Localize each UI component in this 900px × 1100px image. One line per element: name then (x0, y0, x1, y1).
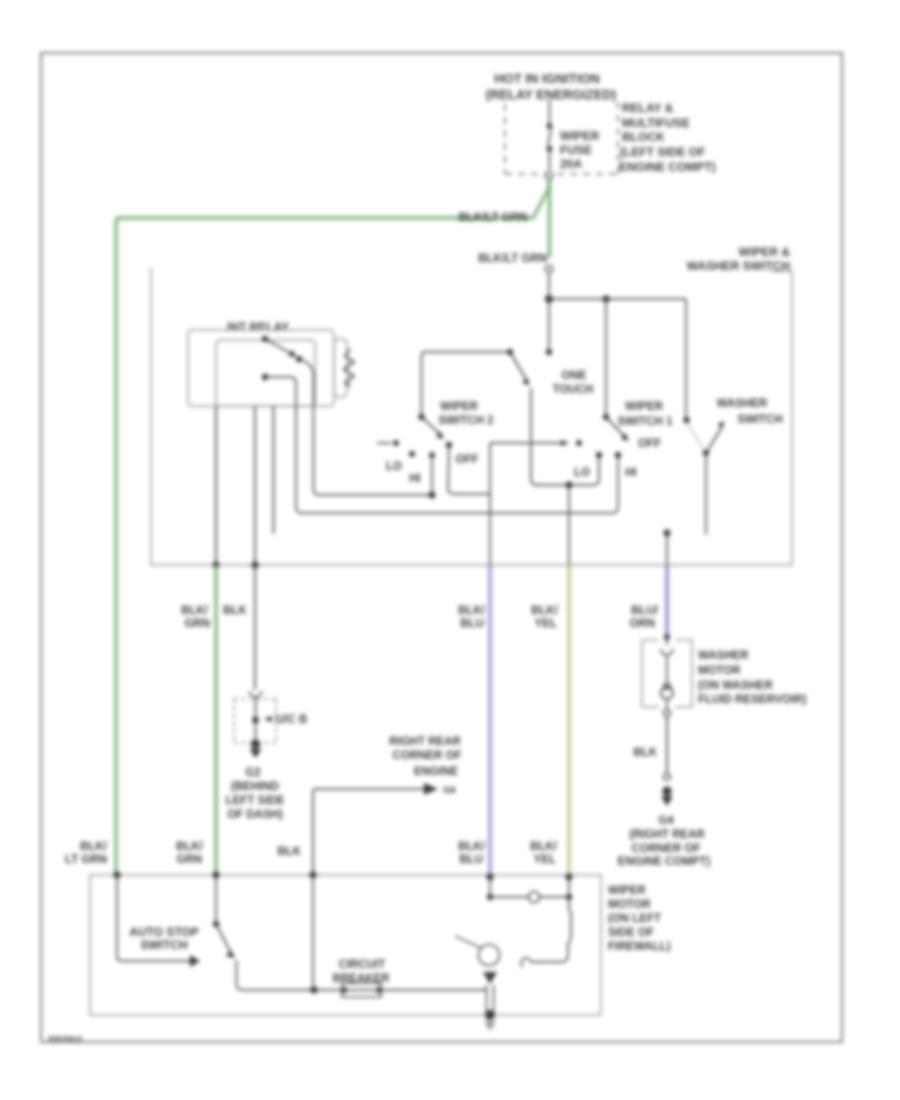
svg-text:BLK: BLK (277, 846, 301, 858)
contact dot (429, 452, 435, 458)
svg-text:ENGINE COMPT): ENGINE COMPT) (618, 856, 711, 868)
wire label BLK/YEL (530, 841, 558, 866)
ground terminal G2 (250, 739, 262, 758)
svg-text:CORNER OF: CORNER OF (393, 750, 462, 762)
svg-text:LO: LO (574, 467, 590, 479)
wire: relay pin to BLK (254, 406, 256, 565)
label: WIPER SWITCH 1 (618, 401, 674, 428)
wire label BLU/ORN (629, 605, 658, 630)
relay K1 coil winding (344, 349, 354, 386)
wire label BLK/GRN (181, 605, 210, 630)
svg-text:WASHER: WASHER (717, 398, 768, 410)
label: WASHER SWITCH (717, 398, 783, 426)
svg-text:BLK: BLK (223, 605, 247, 617)
label: RIGHT REAR CORNER OF ENGINE (389, 736, 461, 778)
auto stop contact arrow (190, 955, 200, 967)
label: WASHER MOTOR (ON WASHER FLUID RESERVOIR) (698, 650, 807, 706)
wiper switch SW2 pivot (418, 414, 424, 420)
wire: terminal to motor (666, 637, 668, 645)
wire: wiper motor ground lead BLK (313, 789, 424, 875)
svg-text:LEFT SIDE: LEFT SIDE (226, 795, 285, 807)
svg-text:HI: HI (625, 467, 637, 479)
junction at contact riser (428, 491, 435, 498)
wire label BLK/GRN (176, 841, 204, 866)
wire: relay pin to BLK/GRN (215, 406, 217, 565)
svg-text:GRN: GRN (184, 618, 210, 630)
motor ground double lead (487, 985, 494, 1012)
wire label BLK/BLU (458, 841, 486, 866)
svg-text:CIRCUIT: CIRCUIT (339, 959, 386, 971)
label: WIPER MOTOR (ON LEFT SIDE OF FIREWALL) (608, 885, 671, 953)
wire: connector to node A (548, 274, 550, 296)
svg-text:SWITCH 1: SWITCH 1 (618, 416, 674, 428)
label: WIPER & WASHER SWITCH (687, 245, 791, 273)
washer switch SW4 feed terminal (683, 417, 689, 423)
label: G4 (RIGHT REAR CORNER OF ENGINE COMPT) (618, 815, 711, 868)
svg-text:BLK/: BLK/ (458, 841, 486, 853)
svg-text:HI: HI (409, 473, 421, 485)
connector ring (664, 710, 671, 717)
wire: BLK/LT GRN branch to left and down to wiper motor (116, 180, 550, 873)
wiper switch 1 LO contact (596, 452, 602, 458)
park contact hook (521, 958, 531, 967)
svg-text:(ON WASHER: (ON WASHER (698, 680, 773, 692)
washer switch SW4 pivot (703, 450, 709, 456)
label: AUTO STOP SWITCH (129, 925, 199, 952)
wiper & washer switch assembly box (151, 268, 792, 565)
washer switch SW4 rest position arm (faint) (687, 423, 704, 450)
svg-text:BLK/: BLK/ (176, 841, 204, 853)
label: G2 (BEHIND LEFT SIDE OF DASH) (226, 767, 285, 821)
svg-text:RIGHT REAR: RIGHT REAR (389, 736, 461, 748)
terminal at box edge (251, 561, 258, 568)
svg-text:BLK: BLK (633, 747, 657, 759)
ground terminal G4 (661, 786, 673, 806)
svg-text:BLK/: BLK/ (80, 841, 108, 853)
INT line contact arrow (561, 440, 569, 446)
svg-text:SIDE OF: SIDE OF (608, 927, 654, 939)
svg-text:BLU: BLU (459, 854, 483, 866)
relay K1 inner case (216, 340, 315, 406)
wire: bus to wiper switch 2 pivot (422, 352, 511, 414)
svg-text:G4: G4 (658, 815, 674, 827)
label: WIPER SWITCH 2 (439, 401, 494, 427)
svg-text:BLK/: BLK/ (181, 605, 209, 617)
terminal pin 3 (309, 871, 316, 878)
svg-text:WIPER &: WIPER & (739, 245, 791, 259)
wire: SW2 OFF contact to INT riser (448, 445, 490, 494)
relay K1 coil tab (334, 339, 347, 397)
wire: socket to motor (666, 655, 668, 684)
svg-text:HOT IN IGNITION: HOT IN IGNITION (494, 71, 599, 86)
wire: battery feed into fuse (549, 100, 551, 125)
wire: node A drop to switch bus (548, 303, 550, 349)
wire: washer motor ground BLK (666, 717, 668, 773)
wire: SW2 INT line to blue riser (490, 442, 563, 444)
connector U/C B dashed outline (234, 699, 276, 743)
washer switch SW4 arm (706, 422, 725, 453)
svg-text:G6: G6 (443, 785, 456, 796)
wire: drop to wiper switch 1 (605, 299, 607, 414)
brush ring (529, 892, 540, 903)
label: HOT IN IGNITION (RELAY ENERGIZED) (486, 71, 617, 102)
svg-text:BLOCK: BLOCK (622, 130, 665, 144)
wire: pin 3 ground lead inside motor (312, 875, 314, 990)
wire: drop to washer switch (685, 299, 687, 417)
svg-text:MOTOR: MOTOR (698, 665, 741, 677)
terminal pin 1 (113, 871, 120, 878)
svg-text:TOUCH: TOUCH (553, 384, 594, 396)
wire: auto stop switch fixed contact (117, 875, 190, 961)
node: washer feed to motor (663, 529, 670, 536)
wire: yellow riser inside switch box (568, 485, 570, 565)
svg-text:BLU/: BLU/ (631, 605, 659, 617)
svg-text:OF DASH): OF DASH) (227, 809, 283, 821)
washer motor socket symbol (661, 649, 673, 655)
washer motor M2 case (642, 640, 692, 707)
wiper switch SW1 arm (606, 417, 629, 441)
svg-text:(ON LEFT: (ON LEFT (608, 913, 661, 925)
relay K1 coil feed pin (262, 374, 268, 380)
wire: feed bus to washer switch (549, 298, 686, 300)
svg-text:SWITCH 2: SWITCH 2 (439, 415, 494, 427)
svg-text:SWITCH: SWITCH (140, 938, 187, 952)
connector pin node (252, 717, 259, 724)
svg-text:G2: G2 (245, 767, 260, 779)
fuse F1 WIPER FUSE 20A (547, 123, 553, 170)
svg-text:YEL: YEL (535, 618, 557, 630)
svg-text:RELAY &: RELAY & (622, 101, 674, 115)
svg-text:BLK/: BLK/ (531, 605, 559, 617)
svg-text:(BEHIND: (BEHIND (231, 781, 279, 793)
ground node on case (485, 1010, 495, 1020)
svg-text:LT GRN: LT GRN (65, 854, 107, 866)
wire: armature winding from HI brush (531, 897, 571, 962)
wire label BLK/LT GRN (65, 841, 108, 866)
svg-text:BLK/: BLK/ (458, 605, 486, 617)
terminal pin 2 (212, 871, 219, 878)
one touch switch SW3 arm (510, 352, 530, 385)
node A (feed junction) (545, 295, 553, 303)
wire label BLK/YEL (531, 605, 559, 630)
wire: motor to case edge (666, 698, 668, 709)
wire: washer feed to box edge (666, 533, 668, 565)
wiper switch SW2 OFF contact (446, 442, 452, 448)
svg-text:ENGINE: ENGINE (414, 766, 458, 778)
wiper switch SW2 INT contact (377, 440, 399, 446)
svg-text:OFF: OFF (638, 438, 661, 450)
svg-text:AUTO STOP: AUTO STOP (129, 925, 199, 939)
svg-text:BLK/LT GRN: BLK/LT GRN (478, 253, 547, 265)
svg-text:FUSE: FUSE (560, 143, 592, 157)
junction: yellow wire tap on LO line (565, 481, 572, 488)
wire: relay contact to wiper switch 2 OFF contact riser (299, 359, 429, 495)
svg-text:BLK/LT GRN: BLK/LT GRN (459, 212, 528, 224)
bus end terminal (546, 349, 552, 355)
svg-text:FIREWALL): FIREWALL) (608, 941, 671, 953)
svg-text:WASHER SWITCH: WASHER SWITCH (687, 259, 790, 273)
value label: WIPER FUSE 20A (560, 129, 600, 171)
wire: washer switch output stub (705, 453, 707, 534)
wiper switch 1 HI contact (615, 452, 621, 458)
svg-text:OFF: OFF (456, 454, 479, 466)
wire: BLK to connector U/C B (254, 565, 256, 690)
svg-text:ENGINE COMPT): ENGINE COMPT) (619, 160, 716, 174)
one touch switch SW3 pivot (507, 349, 513, 355)
svg-text:BLK/: BLK/ (530, 841, 558, 853)
svg-text:(LEFT SIDE OF: (LEFT SIDE OF (620, 145, 705, 159)
wiper switch SW2 LO contact (409, 451, 415, 457)
circuit breaker CB1 (341, 983, 382, 997)
svg-text:INT RELAY: INT RELAY (227, 320, 289, 334)
connector at fuse block output (545, 172, 552, 179)
wiper motor M1 box (90, 875, 601, 1015)
svg-text:BLU: BLU (460, 618, 484, 630)
svg-text:U/C B: U/C B (276, 714, 307, 726)
label: RELAY & MULTIFUSE BLOCK (LEFT SIDE OF ENGINE COMPT) (619, 101, 716, 174)
pointer arrow to U/C B (264, 716, 272, 722)
relay K1 INT RELAY outer case (188, 330, 334, 406)
inline connector (545, 265, 552, 272)
auto stop switch SW5 pivot (213, 921, 219, 927)
wire: blue riser inside switch box (489, 443, 491, 565)
washer motor M2 terminal (664, 634, 670, 640)
svg-text:FLUID RESERVOIR): FLUID RESERVOIR) (698, 694, 807, 706)
wire: one touch output to LO line (531, 388, 599, 485)
svg-text:MOTOR: MOTOR (608, 899, 651, 911)
terminal at box edge (212, 561, 219, 568)
svg-text:YEL: YEL (534, 854, 556, 866)
wire: BLK/LT GRN down to inline connector (548, 180, 551, 258)
wiper switch SW1 pivot (603, 414, 609, 420)
svg-text:(RELAY ENERGIZED): (RELAY ENERGIZED) (486, 87, 617, 102)
wire label BLK/BLU (458, 605, 486, 630)
auto stop switch SW5 arm (216, 924, 235, 958)
wire: BLK/YEL to wiper motor (567, 565, 570, 877)
connector ring (664, 774, 671, 781)
motor ground arrow (483, 972, 497, 984)
svg-text:ORN: ORN (629, 618, 655, 630)
wire: BLK/GRN to wiper motor (214, 565, 217, 875)
wire: riser to contact (431, 458, 433, 495)
svg-text:M: M (663, 682, 671, 693)
connector socket symbol (250, 691, 262, 697)
svg-text:CORNER OF: CORNER OF (632, 843, 701, 855)
park switch cam disc (479, 945, 500, 966)
svg-text:90E05810: 90E05810 (48, 1034, 82, 1043)
svg-text:SWITCH: SWITCH (737, 414, 782, 426)
wire through connector (255, 697, 257, 740)
wire: pin 2 to auto stop arm (215, 875, 217, 921)
wire: coil feed to wiper switch 1 HI contact (265, 377, 618, 513)
svg-text:(RIGHT REAR: (RIGHT REAR (629, 829, 705, 841)
INT line contact dot (576, 440, 582, 446)
terminal pin 4 (486, 873, 493, 880)
park switch pointer (455, 936, 481, 948)
motor M1 brush terminals (487, 877, 572, 900)
ground arrow to G6 (424, 783, 438, 795)
wiper switch SW2 arm (422, 417, 445, 439)
motor M2 symbol (661, 682, 673, 699)
svg-text:WIPER: WIPER (608, 885, 646, 897)
case ground arrow (484, 1021, 496, 1031)
wire: auto stop output to circuit breaker (237, 960, 487, 990)
svg-text:ONE: ONE (562, 370, 587, 382)
svg-text:MULTIFUSE: MULTIFUSE (622, 116, 690, 130)
wire: unused relay pin stub (273, 406, 275, 533)
svg-text:LO: LO (386, 461, 402, 473)
relay K1 switch arm (262, 336, 302, 362)
svg-text:WIPER: WIPER (440, 401, 478, 413)
junction node (310, 986, 317, 993)
wire: BLU/ORN to washer motor (665, 565, 668, 634)
svg-text:GRN: GRN (176, 854, 202, 866)
svg-text:20A: 20A (560, 157, 582, 171)
relay and multifuse block (dashed outline) (505, 102, 618, 174)
label: ONE TOUCH (553, 370, 594, 396)
terminal pin 5 (565, 873, 572, 880)
wire: BLK/BLU to wiper motor (488, 565, 491, 877)
svg-text:WIPER: WIPER (560, 129, 600, 143)
svg-text:WASHER: WASHER (698, 650, 749, 662)
svg-text:WIPER: WIPER (625, 401, 663, 413)
node B (wiper switch 1 tap) (602, 295, 609, 302)
label: CIRCUIT BREAKER (333, 959, 391, 985)
